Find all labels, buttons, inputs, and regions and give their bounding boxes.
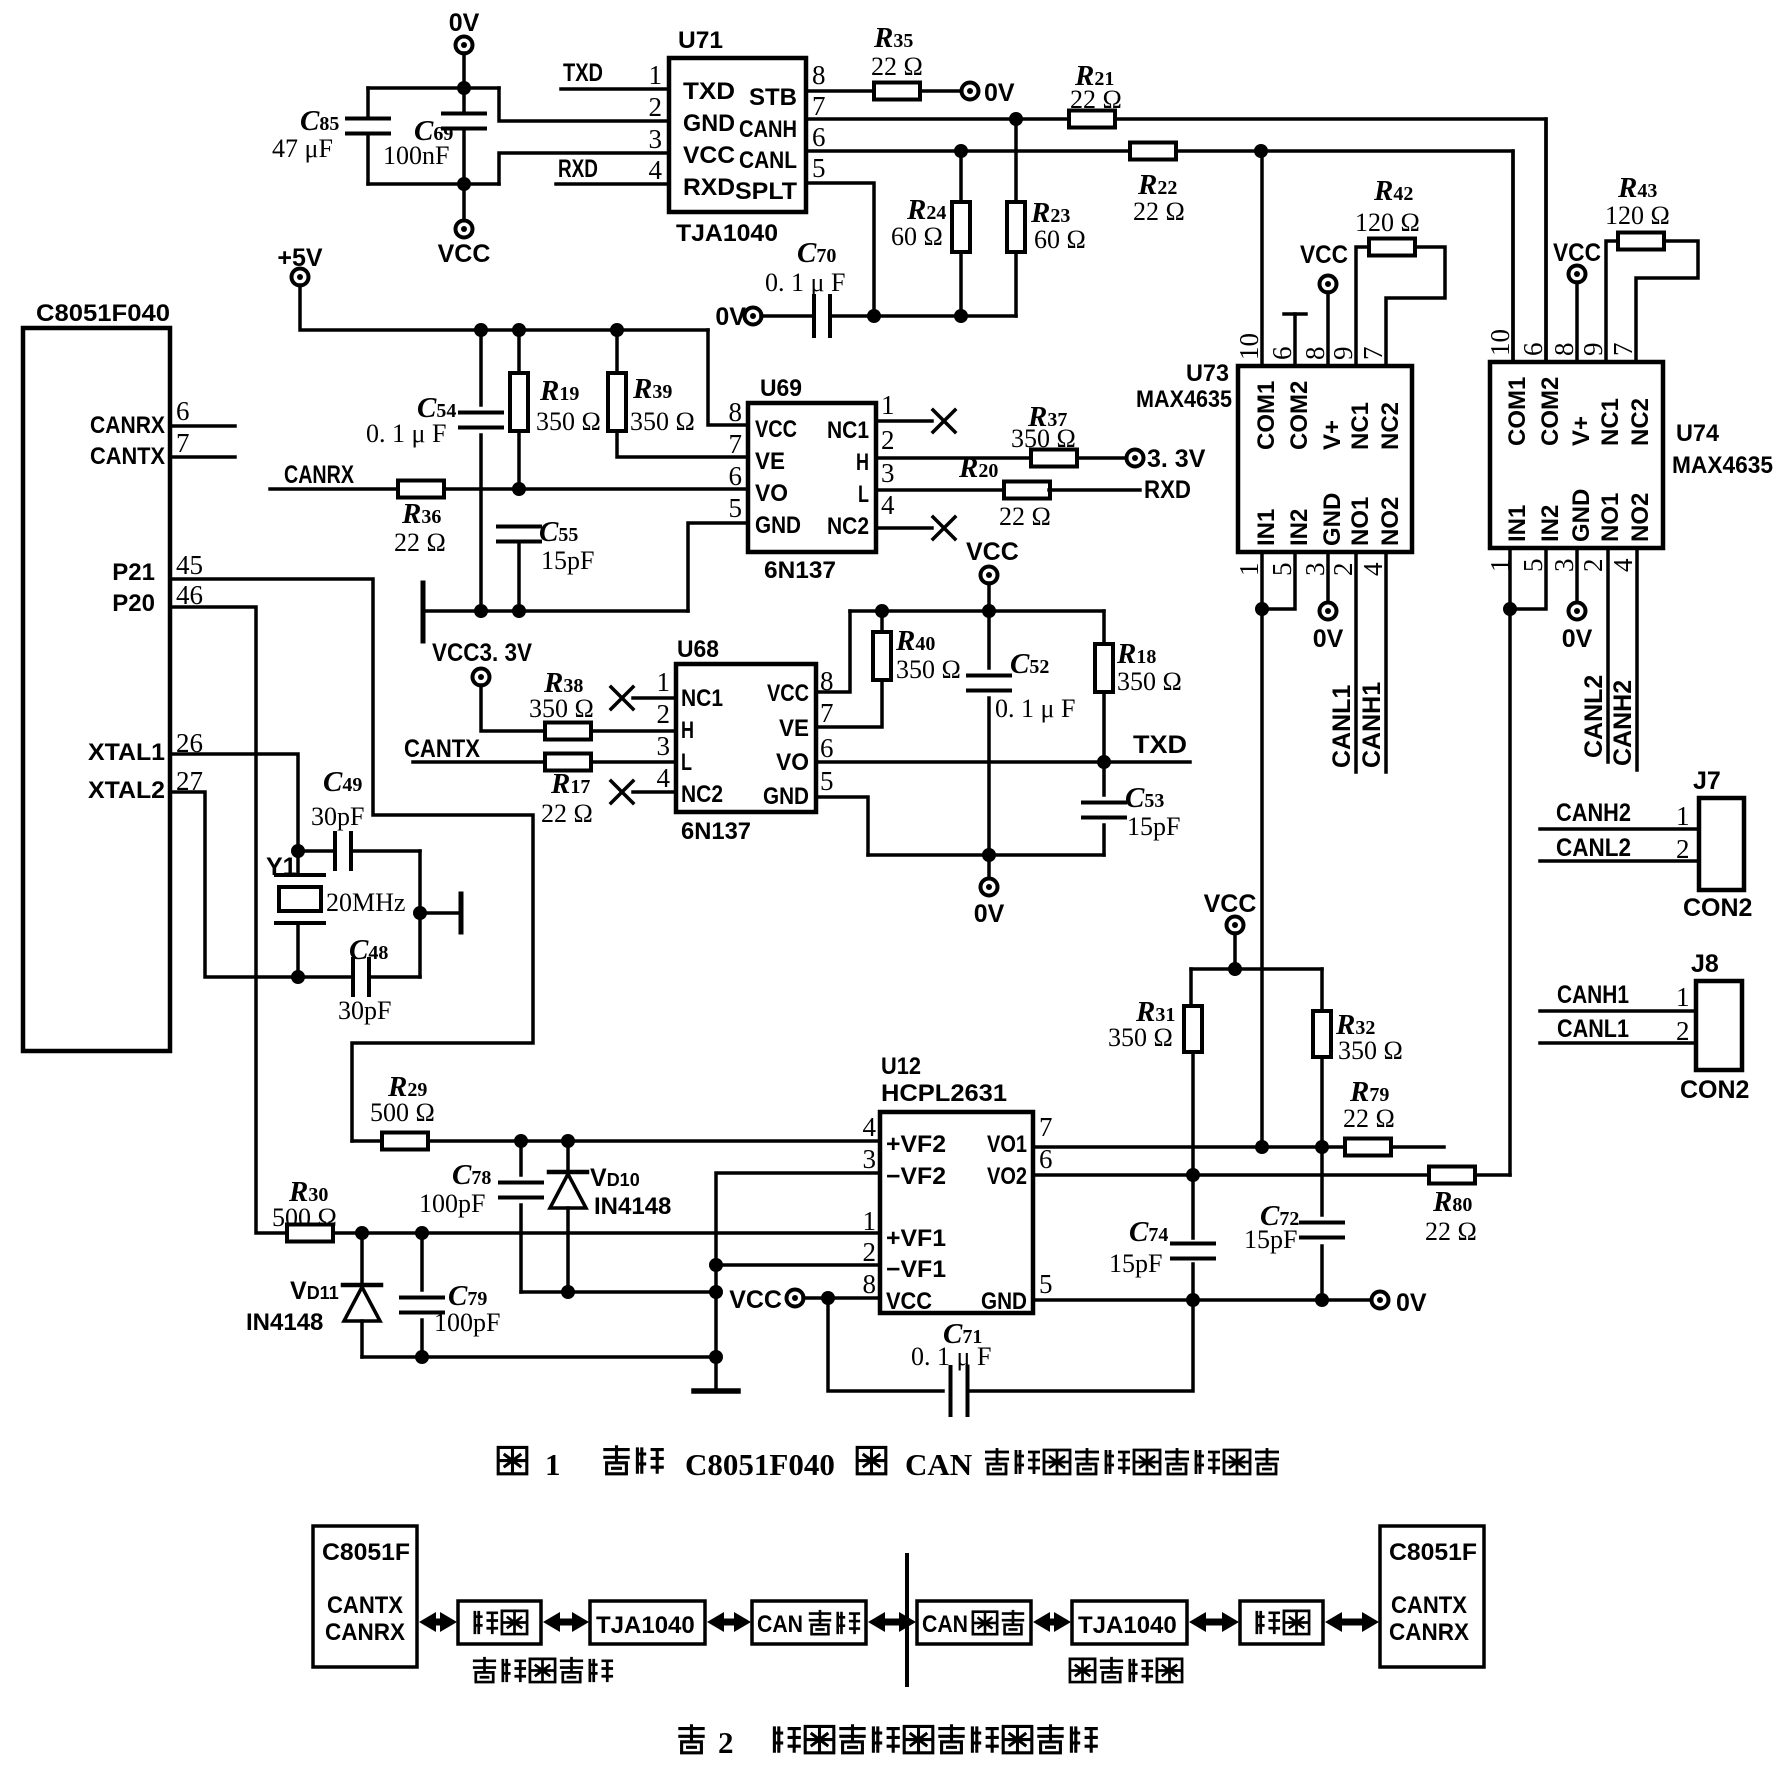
svg-text:IN1: IN1 bbox=[1253, 509, 1280, 546]
svg-text:U12: U12 bbox=[881, 1053, 921, 1080]
node VCC (above C52) bbox=[981, 567, 998, 584]
junction bbox=[291, 844, 305, 858]
svg-text:6: 6 bbox=[729, 461, 743, 491]
svg-text:VCC: VCC bbox=[1204, 890, 1257, 918]
wire U69 pin3 L to RXD bbox=[876, 488, 1005, 492]
svg-text:1: 1 bbox=[545, 1447, 561, 1482]
resistor R43 120Ω (NC1-NC2) bbox=[1606, 241, 1618, 362]
svg-text:P20: P20 bbox=[112, 590, 155, 617]
junction bbox=[1315, 1140, 1329, 1154]
svg-text:L: L bbox=[858, 481, 869, 508]
svg-text:6N137: 6N137 bbox=[764, 557, 836, 584]
svg-text:VE: VE bbox=[755, 448, 785, 475]
block TJA1040 (right) bbox=[1072, 1601, 1187, 1644]
ground rail bbox=[423, 609, 688, 613]
resistor R31 350Ω bbox=[1189, 969, 1193, 1007]
junction bbox=[709, 1258, 723, 1272]
wire VCC3.3V to R38 bbox=[481, 685, 545, 731]
block optocoupler (left) bbox=[458, 1601, 541, 1644]
node 0V (U74 GND) bbox=[1575, 548, 1579, 603]
svg-text:7: 7 bbox=[820, 698, 834, 728]
divider line bbox=[905, 1555, 909, 1685]
svg-text:TJA1040: TJA1040 bbox=[676, 220, 778, 247]
wire U73 COM1 pin10 to CANL line bbox=[1260, 151, 1264, 366]
junction bbox=[474, 604, 488, 618]
wire U74 IN1/IN2 bracket to R80 bbox=[1510, 548, 1546, 609]
svg-text:CANL2: CANL2 bbox=[1556, 834, 1631, 862]
wire U74 COM2 pin6 bbox=[1544, 119, 1548, 362]
resistor R79 22Ω bbox=[1345, 1139, 1391, 1156]
capacitor C70 0.1uF bbox=[761, 314, 814, 318]
capacitor C48 30pF bbox=[351, 959, 355, 995]
svg-text:5: 5 bbox=[820, 766, 834, 796]
svg-text:8: 8 bbox=[729, 397, 743, 427]
junction bbox=[1315, 1293, 1329, 1307]
node +5V bbox=[292, 269, 309, 286]
wire CANL from U71 pin6 bbox=[806, 149, 1131, 153]
svg-text:6: 6 bbox=[176, 396, 190, 426]
svg-text:30pF: 30pF bbox=[338, 996, 391, 1025]
svg-text:STB: STB bbox=[749, 84, 797, 111]
svg-text:NC2: NC2 bbox=[1377, 402, 1404, 450]
svg-text:2: 2 bbox=[863, 1237, 877, 1267]
svg-text:2: 2 bbox=[718, 1725, 734, 1760]
svg-text:CANL1: CANL1 bbox=[1557, 1015, 1629, 1043]
svg-text:5: 5 bbox=[729, 493, 743, 523]
svg-text:VCC: VCC bbox=[966, 538, 1019, 566]
wire to U71 pin2 bbox=[499, 88, 669, 121]
analog switch U73 MAX4635 bbox=[1238, 366, 1412, 552]
svg-text:U73: U73 bbox=[1186, 360, 1229, 387]
svg-text:−VF2: −VF2 bbox=[886, 1163, 946, 1190]
wire P21 to R29 bbox=[170, 579, 533, 1141]
svg-text:GND: GND bbox=[1319, 493, 1346, 546]
wire R80 to U74 IN column bbox=[1475, 1173, 1510, 1177]
svg-text:0V: 0V bbox=[1396, 1289, 1427, 1317]
svg-text:7: 7 bbox=[1358, 347, 1388, 361]
svg-text:3: 3 bbox=[657, 731, 671, 761]
junction bbox=[457, 81, 471, 95]
resistor R30 500Ω bbox=[287, 1225, 333, 1242]
svg-text:RXD: RXD bbox=[683, 174, 735, 201]
svg-text:3: 3 bbox=[1300, 563, 1330, 577]
svg-text:GND: GND bbox=[1568, 489, 1595, 542]
junction bbox=[610, 323, 624, 337]
capacitor C49 30pF bbox=[298, 849, 335, 853]
resistor R37 350Ω bbox=[1031, 450, 1077, 467]
svg-text:SPLT: SPLT bbox=[735, 178, 797, 205]
label ground section bbox=[1070, 1659, 1095, 1682]
svg-text:P21: P21 bbox=[112, 559, 155, 586]
junction bbox=[512, 482, 526, 496]
svg-text:COM2: COM2 bbox=[1286, 381, 1313, 450]
junction bbox=[413, 906, 427, 920]
svg-text:CANL: CANL bbox=[739, 147, 797, 174]
svg-text:20MHz: 20MHz bbox=[326, 888, 405, 917]
capacitor C55 15pF bbox=[498, 525, 540, 529]
svg-text:100pF: 100pF bbox=[434, 1308, 500, 1337]
svg-text:5: 5 bbox=[812, 153, 826, 183]
svg-text:VCC: VCC bbox=[1300, 241, 1348, 269]
svg-text:7: 7 bbox=[1039, 1112, 1053, 1142]
resistor R23 60Ω bbox=[1014, 119, 1018, 204]
optocoupler U69 6N137 bbox=[748, 403, 876, 552]
svg-text:3: 3 bbox=[649, 124, 663, 154]
junction bbox=[821, 1291, 835, 1305]
svg-text:22 Ω: 22 Ω bbox=[999, 502, 1051, 531]
svg-text:TJA1040: TJA1040 bbox=[596, 1612, 695, 1639]
svg-text:1: 1 bbox=[863, 1206, 877, 1236]
svg-text:3. 3V: 3. 3V bbox=[1147, 445, 1206, 473]
svg-text:RXD: RXD bbox=[558, 155, 598, 183]
svg-text:4: 4 bbox=[881, 490, 895, 520]
resistor R19 350Ω bbox=[517, 330, 521, 373]
svg-text:CANH: CANH bbox=[739, 116, 797, 143]
junction bbox=[709, 1285, 723, 1299]
svg-text:V+: V+ bbox=[1568, 416, 1595, 446]
svg-text:MAX4635: MAX4635 bbox=[1136, 386, 1232, 413]
wire U74 NO1 CANL2 bbox=[1606, 548, 1610, 762]
arrow bbox=[419, 1612, 436, 1632]
wire U68 pin5 GND bbox=[816, 797, 868, 855]
net TXD wire U68 pin6 VO bbox=[816, 760, 1190, 764]
svg-text:U74: U74 bbox=[1676, 420, 1720, 447]
wire VCC rail (U68) bbox=[850, 609, 1104, 613]
arrow bbox=[1189, 1612, 1206, 1632]
svg-text:C8051F040: C8051F040 bbox=[36, 300, 170, 327]
svg-text:5: 5 bbox=[1267, 563, 1297, 577]
svg-text:350 Ω: 350 Ω bbox=[630, 407, 695, 436]
capacitor C78 100pF bbox=[519, 1141, 523, 1175]
svg-text:1: 1 bbox=[649, 60, 663, 90]
junction bbox=[512, 604, 526, 618]
svg-text:350 Ω: 350 Ω bbox=[1117, 667, 1182, 696]
svg-text:60 Ω: 60 Ω bbox=[1034, 225, 1086, 254]
svg-text:GND: GND bbox=[763, 783, 809, 810]
svg-text:VCC3. 3V: VCC3. 3V bbox=[432, 639, 532, 667]
svg-text:5: 5 bbox=[1518, 559, 1548, 573]
svg-text:22 Ω: 22 Ω bbox=[1343, 1104, 1395, 1133]
node VCC (below C69) bbox=[462, 184, 466, 221]
svg-text:Y1: Y1 bbox=[266, 853, 297, 881]
svg-text:TXD: TXD bbox=[563, 59, 603, 87]
junction bbox=[709, 1350, 723, 1364]
resistor R24 60Ω bbox=[959, 151, 963, 204]
block C8051F (right) bbox=[1380, 1526, 1484, 1667]
node 0V (U73 GND) bbox=[1326, 552, 1330, 603]
transceiver U71 TJA1040 bbox=[669, 58, 806, 212]
junction bbox=[561, 1134, 575, 1148]
svg-text:350 Ω: 350 Ω bbox=[896, 655, 961, 684]
wire VO1 line bbox=[1033, 1145, 1346, 1149]
node 0V (below C52) bbox=[987, 855, 991, 879]
capacitor C53 15pF bbox=[1102, 762, 1106, 795]
svg-text:VCC: VCC bbox=[729, 1286, 782, 1314]
svg-text:CAN: CAN bbox=[905, 1447, 972, 1482]
svg-text:1: 1 bbox=[657, 667, 671, 697]
svg-text:VE: VE bbox=[779, 715, 809, 742]
wire XTAL2 to C48 bbox=[170, 792, 353, 977]
node 0V (right) bbox=[1372, 1292, 1389, 1309]
wire U69 pin2 H to 3.3V bbox=[876, 456, 1031, 460]
svg-text:J7: J7 bbox=[1693, 767, 1721, 795]
block TJA1040 (left) bbox=[590, 1601, 705, 1644]
svg-text:V+: V+ bbox=[1319, 420, 1346, 450]
svg-text:0V: 0V bbox=[715, 303, 746, 331]
svg-text:NC2: NC2 bbox=[1627, 398, 1654, 446]
svg-text:MAX4635: MAX4635 bbox=[1672, 452, 1773, 479]
diode VD10 IN4148 bbox=[566, 1141, 570, 1172]
optocoupler U12 HCPL2631 bbox=[880, 1112, 1033, 1313]
svg-text:3: 3 bbox=[1549, 559, 1579, 573]
svg-text:CANRX: CANRX bbox=[90, 412, 165, 439]
svg-text:U71: U71 bbox=[678, 27, 723, 54]
svg-text:GND: GND bbox=[683, 110, 735, 137]
svg-text:CANTX: CANTX bbox=[1391, 1592, 1467, 1619]
svg-text:XTAL1: XTAL1 bbox=[88, 739, 165, 766]
svg-text:+VF1: +VF1 bbox=[886, 1225, 946, 1252]
ground (U12) bbox=[694, 1388, 738, 1394]
svg-text:0V: 0V bbox=[449, 9, 480, 37]
svg-text:+5V: +5V bbox=[277, 244, 323, 272]
wire U69 GND bbox=[688, 523, 748, 611]
svg-text:1: 1 bbox=[1676, 801, 1690, 831]
svg-text:9: 9 bbox=[1328, 347, 1358, 361]
svg-text:VCC: VCC bbox=[767, 680, 809, 707]
svg-text:NC1: NC1 bbox=[827, 417, 869, 444]
wire VO2 line bbox=[1033, 1173, 1430, 1177]
svg-text:8: 8 bbox=[1300, 347, 1330, 361]
resistor R38 350Ω bbox=[545, 723, 591, 740]
svg-text:350 Ω: 350 Ω bbox=[536, 407, 601, 436]
svg-text:8: 8 bbox=[812, 60, 826, 90]
svg-text:TXD: TXD bbox=[1133, 731, 1187, 759]
svg-text:NC1: NC1 bbox=[1347, 402, 1374, 450]
node VCC (U73 V+) bbox=[1320, 276, 1337, 293]
analog switch U74 MAX4635 bbox=[1490, 362, 1663, 548]
junction bbox=[954, 309, 968, 323]
svg-text:NC2: NC2 bbox=[681, 781, 723, 808]
wire P20 to R30 bbox=[170, 607, 287, 1233]
svg-text:10: 10 bbox=[1234, 333, 1264, 360]
svg-text:7: 7 bbox=[176, 428, 190, 458]
block CAN bus (left) bbox=[752, 1601, 866, 1644]
arrow bbox=[707, 1612, 724, 1632]
block C8051F (left) bbox=[313, 1526, 417, 1667]
svg-text:15pF: 15pF bbox=[1109, 1249, 1162, 1278]
resistor R22 22Ω bbox=[1130, 143, 1176, 160]
wire U73 IN1/IN2 bracket to VO1 bbox=[1262, 552, 1295, 609]
svg-text:J8: J8 bbox=[1691, 950, 1719, 978]
microcontroller C8051F040 bbox=[23, 328, 170, 1051]
svg-text:2: 2 bbox=[1676, 834, 1690, 864]
wire -VF2 column bbox=[716, 1173, 880, 1391]
wire top rail bbox=[368, 86, 499, 90]
svg-text:7: 7 bbox=[729, 429, 743, 459]
svg-text:22 Ω: 22 Ω bbox=[394, 528, 446, 557]
svg-text:30pF: 30pF bbox=[311, 802, 364, 831]
node VCC (U74 V+) bbox=[1569, 266, 1586, 283]
svg-text:7: 7 bbox=[1608, 343, 1638, 357]
svg-text:CANTX: CANTX bbox=[404, 735, 480, 763]
svg-text:U69: U69 bbox=[760, 375, 802, 402]
junction bbox=[1097, 755, 1111, 769]
svg-text:IN4148: IN4148 bbox=[594, 1193, 671, 1220]
wire C78/VD10 to -VF1 node bbox=[521, 1290, 716, 1294]
svg-text:GND: GND bbox=[981, 1288, 1027, 1315]
svg-text:IN2: IN2 bbox=[1286, 509, 1313, 546]
svg-text:VO: VO bbox=[755, 480, 788, 507]
wire U68 pin8 VCC bbox=[816, 611, 850, 692]
capacitor C52 0.1uF bbox=[987, 611, 991, 668]
svg-text:10: 10 bbox=[1485, 329, 1515, 356]
svg-text:VO2: VO2 bbox=[987, 1163, 1027, 1190]
svg-text:XTAL2: XTAL2 bbox=[88, 777, 165, 804]
junction bbox=[1186, 1168, 1200, 1182]
diode VD11 IN4148 bbox=[360, 1233, 364, 1285]
svg-text:47 μF: 47 μF bbox=[272, 134, 333, 163]
capacitor C79 100pF bbox=[420, 1233, 424, 1290]
capacitor C71 0.1uF bbox=[828, 1298, 943, 1391]
svg-text:6: 6 bbox=[812, 122, 826, 152]
svg-text:0. 1 μ F: 0. 1 μ F bbox=[366, 419, 446, 448]
wire SPLT from U71 pin5 bbox=[806, 183, 874, 316]
svg-text:+VF2: +VF2 bbox=[886, 1131, 946, 1158]
svg-text:350 Ω: 350 Ω bbox=[1011, 424, 1076, 453]
svg-text:VCC: VCC bbox=[1553, 239, 1601, 267]
svg-text:0. 1 μ F: 0. 1 μ F bbox=[765, 268, 845, 297]
svg-text:4: 4 bbox=[1358, 562, 1388, 576]
svg-text:120 Ω: 120 Ω bbox=[1605, 201, 1670, 230]
svg-text:15pF: 15pF bbox=[1127, 812, 1180, 841]
junction bbox=[867, 309, 881, 323]
svg-text:4: 4 bbox=[649, 155, 663, 185]
caption fig2 bbox=[678, 1724, 704, 1753]
junction bbox=[512, 323, 526, 337]
resistor R17 22Ω bbox=[545, 754, 591, 771]
svg-text:1: 1 bbox=[1676, 982, 1690, 1012]
svg-text:100nF: 100nF bbox=[383, 141, 449, 170]
svg-text:VCC: VCC bbox=[886, 1288, 932, 1315]
wire XTAL1 bbox=[170, 754, 298, 851]
svg-text:CON2: CON2 bbox=[1683, 894, 1752, 922]
svg-text:8: 8 bbox=[863, 1269, 877, 1299]
svg-text:2: 2 bbox=[657, 699, 671, 729]
wire VCC bracket rail bbox=[1191, 967, 1322, 971]
svg-text:CANRX: CANRX bbox=[325, 1619, 405, 1646]
junction bbox=[954, 144, 968, 158]
svg-text:RXD: RXD bbox=[1144, 476, 1191, 504]
svg-text:4: 4 bbox=[1608, 558, 1638, 572]
block optocoupler (right) bbox=[1240, 1601, 1323, 1644]
wire to U71 pin3 bbox=[499, 153, 669, 184]
svg-text:−VF1: −VF1 bbox=[886, 1256, 946, 1283]
wire bbox=[462, 53, 466, 88]
svg-text:0. 1 μ F: 0. 1 μ F bbox=[995, 694, 1075, 723]
wire U73 NO1 CANL1 bbox=[1354, 552, 1358, 772]
wire U74 COM1 pin10 bbox=[1511, 151, 1515, 362]
junction bbox=[415, 1350, 429, 1364]
svg-text:COM1: COM1 bbox=[1504, 377, 1531, 446]
capacitor C74 15pF bbox=[1191, 1175, 1195, 1238]
svg-text:CANRX: CANRX bbox=[284, 461, 354, 489]
resistor R29 500Ω bbox=[352, 1139, 382, 1143]
svg-text:NO1: NO1 bbox=[1597, 493, 1624, 542]
svg-text:TXD: TXD bbox=[683, 78, 735, 105]
resistor R18 350Ω bbox=[1102, 611, 1106, 644]
junction bbox=[415, 1226, 429, 1240]
node VCC (R31/R32) bbox=[1227, 917, 1244, 934]
junction bbox=[982, 848, 996, 862]
arrow bbox=[1325, 1612, 1342, 1632]
wire right side of crystal bbox=[418, 851, 422, 977]
svg-text:IN4148: IN4148 bbox=[246, 1309, 323, 1336]
svg-text:H: H bbox=[681, 717, 694, 744]
svg-text:CAN: CAN bbox=[757, 1611, 803, 1638]
wire +5V rail bbox=[300, 285, 708, 330]
svg-text:0V: 0V bbox=[984, 79, 1015, 107]
svg-text:C8051F040: C8051F040 bbox=[685, 1447, 835, 1482]
svg-text:VCC: VCC bbox=[438, 240, 491, 268]
svg-text:CANL1: CANL1 bbox=[1328, 685, 1356, 768]
svg-text:2: 2 bbox=[1676, 1016, 1690, 1046]
svg-text:6N137: 6N137 bbox=[681, 818, 751, 845]
arrow bbox=[868, 1612, 885, 1632]
wire bottom rail bbox=[368, 182, 499, 186]
svg-text:NC2: NC2 bbox=[827, 513, 869, 540]
wire -VF1 bbox=[716, 1263, 880, 1267]
svg-text:0V: 0V bbox=[974, 900, 1005, 928]
svg-text:CANH2: CANH2 bbox=[1609, 680, 1637, 766]
svg-text:6: 6 bbox=[820, 733, 834, 763]
caption fig1 bbox=[498, 1447, 527, 1473]
svg-text:CANH1: CANH1 bbox=[1557, 981, 1629, 1009]
svg-text:4: 4 bbox=[657, 763, 671, 793]
svg-text:H: H bbox=[856, 449, 869, 476]
svg-text:IN1: IN1 bbox=[1504, 505, 1531, 542]
svg-text:350 Ω: 350 Ω bbox=[529, 694, 594, 723]
svg-text:L: L bbox=[681, 749, 692, 776]
svg-text:VO: VO bbox=[776, 749, 809, 776]
svg-text:2: 2 bbox=[1578, 559, 1608, 573]
svg-text:7: 7 bbox=[812, 91, 826, 121]
wire CANH to U74 COM2 bbox=[1115, 119, 1546, 362]
svg-text:VCC: VCC bbox=[755, 416, 797, 443]
resistor R40 350Ω bbox=[880, 611, 884, 633]
svg-text:IN2: IN2 bbox=[1537, 505, 1564, 542]
svg-text:15pF: 15pF bbox=[541, 546, 594, 575]
svg-text:22 Ω: 22 Ω bbox=[871, 52, 923, 81]
node 0V (top) bbox=[456, 37, 473, 54]
junction bbox=[982, 604, 996, 618]
svg-text:3: 3 bbox=[863, 1144, 877, 1174]
wire CANH from U71 pin7 bbox=[806, 117, 1069, 121]
svg-text:CANTX: CANTX bbox=[327, 1592, 403, 1619]
svg-text:45: 45 bbox=[176, 550, 203, 580]
svg-text:0V: 0V bbox=[1313, 625, 1344, 653]
svg-text:6: 6 bbox=[1267, 347, 1297, 361]
svg-text:0. 1 μ F: 0. 1 μ F bbox=[911, 1342, 991, 1371]
wire 0V rail (U12) bbox=[1033, 1298, 1372, 1302]
resistor R80 22Ω bbox=[1429, 1167, 1475, 1184]
svg-text:NO1: NO1 bbox=[1347, 497, 1374, 546]
svg-text:NO2: NO2 bbox=[1377, 497, 1404, 546]
capacitor C85 bbox=[366, 88, 370, 118]
resistor R20 22Ω bbox=[1004, 482, 1050, 499]
capacitor C54 0.1uF bbox=[479, 330, 483, 405]
no-connect X U68 pin1 bbox=[611, 687, 633, 709]
svg-text:NO2: NO2 bbox=[1627, 493, 1654, 542]
